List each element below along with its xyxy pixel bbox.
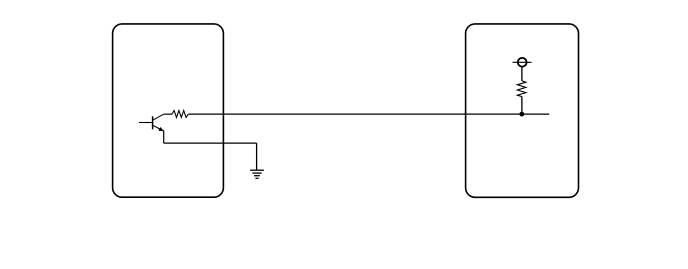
resistor R2 (vertical) <box>517 81 526 97</box>
terminal symbol (supply terminal) <box>513 58 532 67</box>
wire: collector to R1 <box>164 113 173 115</box>
enclosure: left device outline <box>113 24 224 197</box>
wire: emitter horizontal run <box>164 142 257 144</box>
wire: drop to ground <box>256 143 258 170</box>
wire: terminal to R2 <box>521 67 523 81</box>
junction node A <box>519 112 524 117</box>
wire: R2 to node A <box>521 97 523 115</box>
enclosure: right device outline <box>466 24 579 197</box>
transistor Q1 (NPN) <box>139 114 164 131</box>
wire: R1 to node A (long horizontal net) <box>188 113 549 115</box>
resistor R1 (horizontal) <box>172 111 188 118</box>
ground <box>250 170 264 178</box>
wire: emitter vertical drop <box>163 131 165 143</box>
